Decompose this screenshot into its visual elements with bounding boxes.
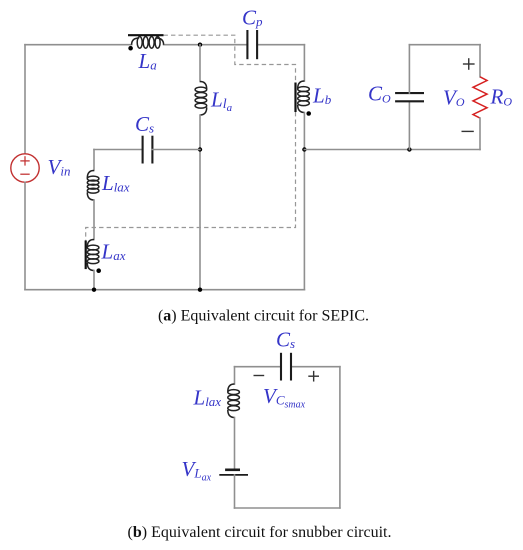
node dot Lax bottom [92, 288, 96, 292]
svg-text:VCsmax: VCsmax [263, 384, 306, 411]
minus sign Cs [254, 375, 265, 377]
plus sign VO [463, 58, 475, 70]
wire middle upper [199, 45, 201, 82]
node dot right at output row [302, 147, 306, 151]
plus sign Cs [308, 371, 319, 382]
wire CO lower [408, 101, 410, 149]
wire b right [339, 367, 341, 508]
svg-text:(a) Equivalent circuit for SEP: (a) Equivalent circuit for SEPIC. [158, 308, 369, 325]
node dot at La/Lla junction [198, 43, 202, 47]
inductor Lax [87, 240, 99, 271]
svg-text:Cs: Cs [276, 328, 295, 352]
minus sign VO [462, 130, 474, 132]
wire Cs right [152, 149, 200, 151]
resistor RO [473, 77, 487, 118]
node dot middle at Cs row [198, 147, 202, 151]
capacitor Cs [143, 136, 153, 164]
svg-text:CO: CO [368, 82, 391, 106]
wire b bottom [235, 507, 340, 509]
wire Cp to top-right corner [257, 44, 304, 46]
core bar of Lb [294, 83, 296, 113]
wire Llax top [93, 150, 95, 171]
capacitor Cp [247, 30, 257, 59]
wire left lower [24, 182, 26, 289]
wire output top [409, 44, 480, 46]
wire RO lower [479, 118, 481, 149]
wire b left middle [234, 418, 236, 470]
voltage source Vin [11, 154, 39, 182]
core bar of Lax [85, 241, 87, 270]
wire bottom [25, 289, 304, 291]
inductor Llax [87, 171, 99, 201]
wire b top-left [235, 366, 282, 368]
wire right upper [303, 45, 305, 81]
core bar of La [128, 34, 164, 36]
dashed coupling line La to Cp bypass [164, 35, 296, 82]
node dot middle at bottom [198, 288, 202, 292]
inductor Lb [298, 81, 310, 113]
svg-text:Lb: Lb [312, 84, 332, 108]
wire Lax bottom [93, 271, 95, 290]
wire Llax to Lax [93, 200, 95, 240]
polarity dot of Lax [96, 268, 101, 273]
node dot CO bottom [407, 147, 411, 151]
wire b top-right [291, 366, 340, 368]
wire CO upper [408, 45, 410, 93]
battery VLax [219, 470, 248, 475]
wire left upper [24, 45, 26, 154]
wire right lower [303, 113, 305, 290]
svg-text:(b) Equivalent circuit for snu: (b) Equivalent circuit for snubber circu… [128, 524, 392, 541]
wire b left bottom [234, 475, 236, 508]
capacitor CO [395, 93, 424, 101]
svg-text:Cp: Cp [242, 6, 263, 30]
inductor Llax snubber [228, 384, 240, 418]
svg-text:Cs: Cs [135, 112, 154, 136]
inductor La [132, 37, 164, 49]
inductor Lla [195, 82, 207, 116]
svg-text:RO: RO [490, 85, 513, 109]
wire output bottom [304, 149, 480, 151]
svg-text:Vin: Vin [48, 155, 71, 179]
wire middle lower [199, 115, 201, 290]
svg-text:Lla: Lla [210, 88, 233, 115]
capacitor Cs snubber [281, 353, 291, 381]
svg-text:Llax: Llax [101, 171, 130, 195]
svg-text:Llax: Llax [193, 386, 222, 410]
svg-text:La: La [138, 49, 158, 73]
svg-text:Lax: Lax [101, 240, 126, 264]
svg-text:VLax: VLax [182, 457, 212, 484]
wire b left top [234, 367, 236, 384]
polarity dot of Lb [306, 111, 311, 116]
polarity dot of La [128, 46, 133, 51]
dashed coupling line Lb down [86, 112, 296, 241]
svg-text:VO: VO [443, 85, 465, 109]
wire RO upper [479, 45, 481, 77]
wire La to Cp [164, 44, 248, 46]
wire top-left from Vin column to La [25, 44, 132, 46]
wire Cs left [94, 149, 143, 151]
